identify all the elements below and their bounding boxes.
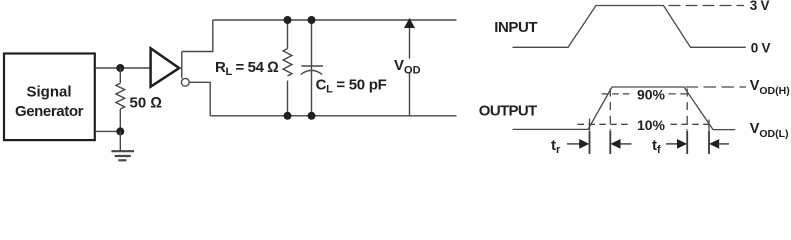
driver U1 [151,48,180,86]
tf 10% vertical tick [708,120,710,131]
wire output split vertical [181,52,183,79]
tf 90% vertical dashed [686,89,688,131]
svg-text:CL = 50 pF: CL = 50 pF [316,77,387,96]
svg-text:50 Ω: 50 Ω [130,95,162,112]
inverting output bubble [181,78,189,86]
wire bottom rail [210,115,456,117]
node RL top dot [284,16,292,24]
capacitor CL = 50 pF [301,65,323,67]
wire to ground [119,131,121,151]
tr arrow right [567,143,581,145]
wire generator bottom return [95,130,120,132]
node B junction dot bottom [116,127,124,135]
wire node A down [119,68,121,83]
svg-text:10%: 10% [637,117,666,133]
tf arrow left [719,143,729,145]
svg-text:0 V: 0 V [751,41,771,56]
svg-text:VOD: VOD [394,57,421,77]
tr 10% vertical tick [589,119,591,131]
svg-text:OUTPUT: OUTPUT [479,103,537,120]
ground [111,151,134,160]
svg-text:INPUT: INPUT [494,19,537,36]
measurement bars [590,131,710,155]
wire driver tip stub [179,67,182,69]
node CL top dot [308,16,316,24]
INPUT waveform [513,6,746,48]
svg-text:tr: tr [551,137,561,156]
node CL bottom dot [308,112,316,120]
3V dashed level [669,5,745,7]
svg-text:90%: 90% [637,87,666,103]
svg-text:3 V: 3 V [750,0,770,13]
wire top rail [213,19,457,21]
10% dashed level [578,123,631,125]
resistor RL leads [287,20,289,116]
svg-text:Signal: Signal [26,84,71,101]
svg-text:RL = 54 Ω: RL = 54 Ω [215,59,278,78]
svg-text:tf: tf [652,137,661,156]
signal generator SG1 [4,54,95,141]
resistor 50 ohm [116,83,125,109]
tr arrow left [620,143,631,145]
svg-text:VOD(H): VOD(H) [750,78,790,97]
tr 90% vertical dashed [609,89,611,131]
wire noninverting output [182,20,213,52]
node A junction dot top [116,64,124,72]
capacitor CL wire top [311,20,313,66]
wire resistor bottom [119,109,121,131]
wire generator top output [95,67,150,69]
tf arrow right [666,143,678,145]
VOD measure arrow [409,28,411,116]
OUTPUT waveform [513,87,736,130]
node RL bottom dot [284,112,292,120]
wire inverting output [189,82,210,116]
capacitor CL wire bottom [311,66,313,116]
90% dashed level [602,93,633,95]
svg-text:Generator: Generator [15,103,84,120]
VOD(H) dashed level [686,86,747,88]
resistor RL = 54 ohm [283,49,292,76]
svg-text:VOD(L): VOD(L) [750,121,789,140]
